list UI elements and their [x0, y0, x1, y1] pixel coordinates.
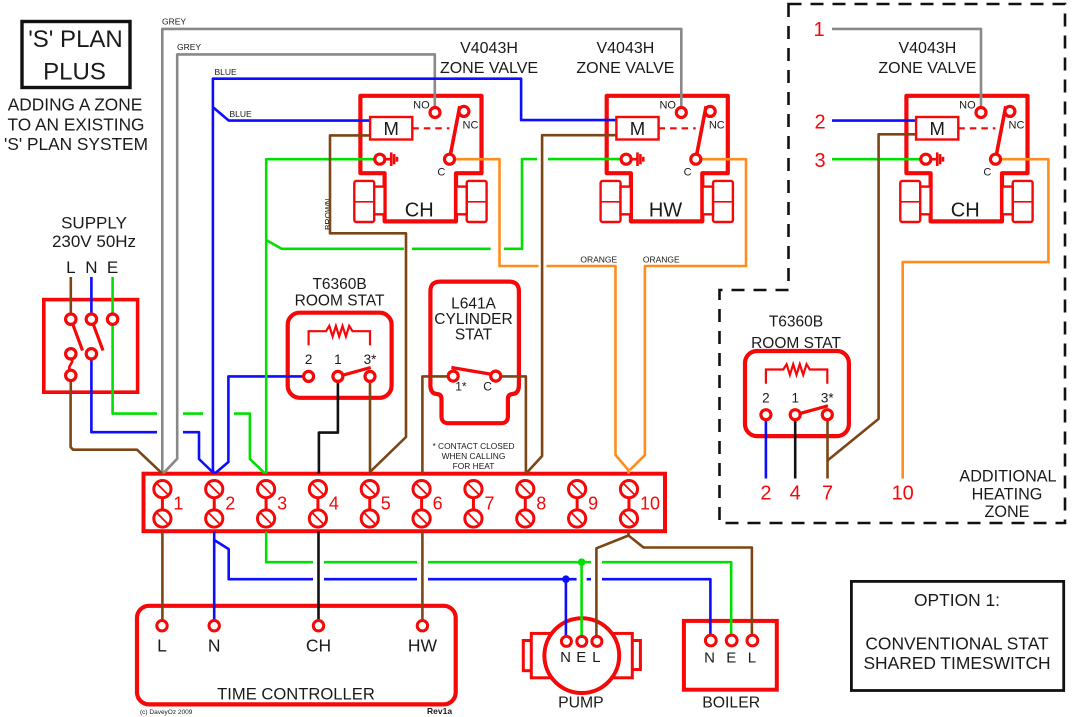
svg-text:2: 2 — [305, 352, 313, 367]
wire green CH valve earth to terminal 3 — [266, 159, 377, 474]
wire brown cylinder stat C to terminal 8 — [498, 376, 526, 473]
wire green branch to HW valve earth — [266, 240, 404, 249]
pump terminal L — [592, 636, 602, 646]
terminal 7 — [465, 481, 495, 528]
contact NC HW — [705, 106, 715, 116]
svg-text:NO: NO — [413, 100, 430, 112]
svg-text:BLUE: BLUE — [230, 109, 253, 119]
title box S PLAN PLUS — [22, 22, 130, 88]
option 1 box — [851, 581, 1063, 690]
svg-text:E: E — [576, 649, 586, 666]
svg-text:ZONE VALVE: ZONE VALVE — [878, 60, 976, 77]
wire blue supply N to terminal 2 — [91, 392, 157, 432]
svg-text:CYLINDER: CYLINDER — [434, 311, 512, 328]
svg-text:9: 9 — [588, 494, 598, 514]
wire grey 1 supply to HW valve NO and terminal 1 — [162, 29, 681, 474]
svg-text:'S' PLAN: 'S' PLAN — [28, 26, 123, 53]
svg-text:N: N — [704, 650, 715, 667]
dashed link M to switch HW — [659, 127, 696, 129]
svg-text:GREY: GREY — [177, 42, 201, 52]
svg-text:CH: CH — [405, 200, 434, 222]
wire black room stat 1 to terminal 4 — [319, 379, 338, 474]
svg-text:E: E — [726, 650, 736, 667]
supply isolator switch box — [44, 300, 138, 393]
svg-text:WHEN CALLING: WHEN CALLING — [442, 451, 506, 461]
terminal 1 — [154, 481, 184, 528]
switch link L — [69, 359, 72, 371]
stat switch lever main — [342, 368, 371, 376]
svg-text:HW: HW — [649, 200, 682, 222]
wire brown room stat 3 to terminal 5 — [369, 379, 372, 474]
svg-text:PUMP: PUMP — [558, 695, 604, 712]
junction blue pump N — [562, 575, 570, 583]
svg-text:E: E — [107, 258, 118, 277]
svg-text:CH: CH — [951, 200, 980, 222]
wire green rail to pump and boiler E — [266, 532, 313, 563]
svg-text:C: C — [983, 166, 991, 178]
svg-text:ADDITIONAL: ADDITIONAL — [959, 468, 1056, 486]
svg-text:BLUE: BLUE — [215, 67, 238, 77]
svg-text:SUPPLY: SUPPLY — [61, 214, 127, 233]
svg-text:N: N — [208, 636, 221, 656]
terminal 5 — [361, 481, 391, 528]
boiler terminal L — [747, 635, 758, 646]
svg-text:4: 4 — [790, 483, 801, 505]
svg-text:L: L — [748, 650, 756, 667]
svg-text:ORANGE: ORANGE — [643, 255, 680, 265]
svg-text:V4043H: V4043H — [898, 40, 956, 57]
contact C CH2 — [991, 154, 1001, 164]
cylinder stat title — [434, 296, 512, 344]
boiler terminal N — [705, 635, 716, 646]
svg-text:HEATING: HEATING — [972, 486, 1043, 504]
wire green drop to pump E — [580, 562, 583, 637]
terminal 10 — [620, 481, 660, 528]
junction green pump E — [578, 558, 586, 566]
switch lever CH — [450, 106, 460, 159]
additional heating zone dashed border — [720, 4, 1066, 523]
room stat T6360B main title — [295, 276, 385, 310]
terminal block right CH2 — [1002, 181, 1032, 222]
terminal block left HW — [601, 181, 631, 222]
wire green node 3 to valve3 earth — [832, 158, 923, 161]
svg-text:ZONE VALVE: ZONE VALVE — [440, 60, 538, 77]
wire brown supply L to terminal 1 — [71, 392, 162, 473]
svg-text:V4043H: V4043H — [460, 40, 518, 57]
supply internal wires — [70, 277, 73, 314]
svg-text:BROWN: BROWN — [323, 198, 333, 230]
switch lever CH2 — [996, 106, 1006, 159]
contact NC CH2 — [1005, 106, 1015, 116]
svg-text:HW: HW — [408, 636, 438, 656]
stat terminal 2 main — [304, 371, 314, 381]
switch contact L top — [66, 314, 76, 324]
svg-text:N: N — [85, 258, 97, 277]
contact C CH — [445, 154, 455, 164]
svg-text:3: 3 — [277, 494, 287, 514]
contact NO CH2 — [976, 108, 986, 118]
svg-text:T6360B: T6360B — [769, 314, 823, 331]
valve 2 title — [576, 40, 674, 77]
stat terminal 3* main — [365, 371, 375, 381]
svg-text:ROOM STAT: ROOM STAT — [295, 293, 385, 310]
terminal block left CH — [354, 181, 384, 222]
switch contact L bottom — [66, 370, 76, 380]
svg-text:FOR HEAT: FOR HEAT — [453, 461, 495, 471]
svg-text:NC: NC — [463, 119, 479, 131]
svg-text:230V 50Hz: 230V 50Hz — [52, 232, 136, 251]
svg-text:* CONTACT CLOSED: * CONTACT CLOSED — [432, 441, 514, 451]
terminal 8 — [517, 481, 547, 528]
svg-text:M: M — [929, 118, 944, 139]
wire green supply E to terminal 3 — [111, 277, 114, 392]
wire grey node 1 to valve3 NO — [832, 29, 981, 110]
svg-text:CONVENTIONAL STAT: CONVENTIONAL STAT — [865, 634, 1049, 654]
time controller terminal L — [157, 621, 167, 656]
svg-text:2: 2 — [814, 112, 825, 134]
terminal 6 — [413, 481, 443, 528]
svg-text:PLUS: PLUS — [43, 59, 106, 86]
cylinder stat terminal 1* — [448, 371, 458, 381]
terminal strip box — [144, 474, 666, 532]
terminal 4 — [309, 481, 339, 528]
switch pole L lever — [73, 324, 83, 351]
stat switch lever addl — [799, 406, 828, 414]
svg-text:L641A: L641A — [451, 296, 496, 313]
wire blue room stat 2 to terminal 2 — [215, 376, 306, 473]
time controller terminal CH — [306, 621, 331, 656]
svg-text:C: C — [483, 379, 492, 393]
valve 3 title — [878, 40, 976, 77]
svg-text:2: 2 — [225, 494, 235, 514]
dashed link M to switch CH — [412, 127, 449, 129]
svg-text:8: 8 — [536, 494, 546, 514]
note contact closed — [432, 441, 514, 471]
stat terminal 1 main — [333, 371, 343, 381]
wire brown terminal 10 to pump L — [596, 532, 628, 638]
svg-text:3: 3 — [814, 150, 825, 172]
svg-text:1*: 1* — [455, 379, 467, 393]
svg-text:C: C — [684, 166, 692, 178]
dashed link M to switch CH2 — [958, 127, 995, 129]
wire black addl stat 1 to node 4 — [794, 416, 797, 479]
switch contact N mid — [86, 349, 96, 359]
room stat body main — [288, 313, 392, 398]
svg-text:(c) DaveyOz 2009: (c) DaveyOz 2009 — [140, 709, 193, 716]
svg-text:N: N — [560, 649, 571, 666]
cylinder stat lever — [451, 368, 495, 376]
svg-text:ZONE: ZONE — [985, 503, 1030, 521]
switch contact L mid — [66, 349, 76, 359]
terminal 9 — [569, 481, 599, 528]
earth symbol CH — [375, 152, 397, 166]
svg-text:NC: NC — [1009, 119, 1025, 131]
pump body — [523, 618, 640, 693]
room stat T6360B additional title — [751, 314, 841, 353]
svg-text:5: 5 — [381, 494, 391, 514]
additional heating zone label — [959, 468, 1056, 522]
wire grey 2 to CH valve NO and terminal 1 — [164, 54, 435, 473]
svg-text:C: C — [437, 166, 445, 178]
svg-text:2: 2 — [760, 483, 771, 505]
svg-text:3*: 3* — [821, 391, 835, 406]
supply label 230V 50Hz — [52, 214, 136, 278]
switch contact E — [107, 314, 117, 324]
motor M box CH — [370, 117, 412, 140]
svg-text:6: 6 — [433, 494, 443, 514]
svg-text:7: 7 — [484, 494, 494, 514]
wire brown valve3 M to node 7 — [828, 134, 917, 460]
wire blue 1 to HW valve M and terminal 2 — [213, 79, 617, 474]
wire blue rail to pump and boiler N — [214, 540, 313, 579]
time controller box — [137, 606, 456, 705]
svg-text:NO: NO — [959, 100, 976, 112]
svg-text:1: 1 — [791, 391, 799, 406]
wire blue addl stat 2 to node 2 — [765, 416, 768, 479]
svg-text:TO AN EXISTING: TO AN EXISTING — [7, 114, 144, 134]
switch pole N lever — [93, 324, 103, 351]
earth symbol HW — [621, 152, 643, 166]
pump NEL labels — [560, 649, 600, 666]
wire brown addl stat 3 to node 7 — [826, 416, 829, 479]
svg-text:4: 4 — [329, 494, 339, 514]
room stat body additional — [745, 351, 849, 436]
wire brown HW valve M to terminal 8 — [527, 135, 616, 472]
boiler box — [684, 621, 777, 690]
terminal block left CH2 — [900, 181, 930, 222]
contact NO CH — [430, 108, 440, 118]
boiler terminal E — [726, 635, 737, 646]
zone valve body HW — [607, 96, 728, 222]
resistor element main — [309, 326, 370, 346]
earth symbol CH2 — [921, 152, 943, 166]
wire blue terminal 2 to time controller N — [213, 532, 216, 623]
wire brown terminal 6 to time controller HW — [421, 532, 424, 623]
boiler NEL labels — [704, 650, 756, 667]
svg-text:T6360B: T6360B — [312, 276, 366, 293]
wire orange CH valve C to terminal 10 — [452, 159, 539, 266]
wire orange HW valve C to terminal 10 — [630, 159, 746, 470]
svg-text:1: 1 — [334, 352, 342, 367]
contact NO HW — [676, 108, 686, 118]
wire blue node 2 to valve3 M — [832, 119, 916, 122]
svg-text:STAT: STAT — [455, 327, 493, 344]
time controller terminal N — [208, 621, 221, 656]
wire brown cylinder stat 1 to terminal 6 — [422, 376, 451, 473]
motor M box HW — [616, 117, 658, 140]
wire brown terminal 1 to time controller L — [161, 532, 164, 623]
stat terminal 2 addl — [761, 410, 771, 420]
svg-text:10: 10 — [640, 494, 660, 514]
svg-text:1: 1 — [813, 19, 824, 41]
svg-text:'S' PLAN SYSTEM: 'S' PLAN SYSTEM — [4, 134, 148, 154]
svg-text:Rev1a: Rev1a — [427, 706, 452, 716]
svg-text:ZONE VALVE: ZONE VALVE — [576, 60, 674, 77]
wire brown terminal 10 to boiler L — [629, 536, 752, 638]
svg-text:NO: NO — [659, 100, 676, 112]
svg-text:L: L — [157, 636, 167, 656]
svg-text:GREY: GREY — [162, 17, 186, 27]
zone valve body CH — [360, 96, 481, 222]
pump terminal N — [561, 636, 571, 646]
terminal block right HW — [703, 181, 733, 222]
terminal block right CH — [456, 181, 486, 222]
subtitle text — [4, 95, 148, 155]
svg-text:1: 1 — [173, 494, 183, 514]
wire orange valve3 C to node 10 — [903, 159, 1049, 478]
svg-text:7: 7 — [822, 483, 833, 505]
cylinder stat body L641A — [430, 282, 519, 424]
svg-text:NC: NC — [709, 119, 725, 131]
contact NC CH — [459, 106, 469, 116]
zone valve body CH2 — [906, 96, 1027, 222]
contact C HW — [691, 154, 701, 164]
wire blue drop to pump N — [565, 579, 568, 637]
svg-text:M: M — [383, 118, 398, 139]
svg-text:L: L — [66, 258, 75, 277]
terminal 2 — [206, 481, 236, 528]
terminal 3 — [257, 481, 287, 528]
svg-text:OPTION 1:: OPTION 1: — [914, 590, 1000, 610]
valve 1 title — [440, 40, 538, 77]
svg-text:BOILER: BOILER — [702, 695, 760, 712]
time controller terminal HW — [408, 621, 438, 656]
wire blue 2 branch to CH valve M — [213, 107, 370, 121]
cylinder stat terminal C — [491, 371, 501, 381]
svg-text:V4043H: V4043H — [596, 40, 654, 57]
svg-text:ADDING A ZONE: ADDING A ZONE — [8, 95, 142, 115]
svg-text:M: M — [630, 118, 645, 139]
svg-text:ORANGE: ORANGE — [580, 255, 617, 265]
svg-text:SHARED TIMESWITCH: SHARED TIMESWITCH — [863, 653, 1050, 673]
wire brown CH valve M to terminal 5 — [330, 135, 406, 473]
svg-text:2: 2 — [762, 391, 770, 406]
switch lever HW — [696, 106, 706, 159]
svg-text:3*: 3* — [364, 352, 378, 367]
resistor element addl — [766, 364, 827, 384]
option 1 text — [863, 590, 1050, 673]
svg-text:L: L — [592, 649, 600, 666]
motor M box CH2 — [916, 117, 958, 140]
svg-text:TIME CONTROLLER: TIME CONTROLLER — [217, 685, 375, 704]
switch contact N top — [86, 314, 96, 324]
stat terminal 3* addl — [822, 410, 832, 420]
pump terminal E — [577, 636, 587, 646]
wire black terminal 4 to time controller CH — [317, 532, 320, 623]
svg-text:10: 10 — [892, 483, 914, 505]
svg-text:CH: CH — [306, 636, 331, 656]
stat terminal 1 addl — [790, 410, 800, 420]
